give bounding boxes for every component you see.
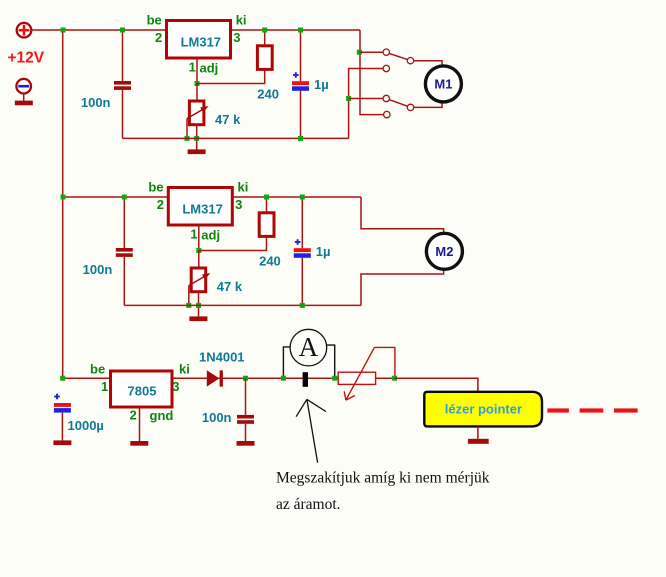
switch S1a blade <box>389 53 407 59</box>
motor M2 <box>426 233 462 269</box>
node ammeter left <box>281 376 286 381</box>
node 100n bottom cap top <box>243 376 248 381</box>
svg-text:240: 240 <box>257 87 279 102</box>
node wiper-rail <box>186 303 191 308</box>
node bus tap <box>61 28 66 33</box>
wire adj lead <box>198 225 200 251</box>
wire rheostat wiper to output <box>374 347 395 378</box>
node 100n top <box>120 28 125 33</box>
ground symbol 1000u <box>53 440 71 445</box>
svg-text:adj: adj <box>201 228 220 243</box>
node wiper-rail <box>185 136 190 141</box>
laser beam dashes <box>547 408 569 412</box>
wire 100n to ground <box>245 424 247 441</box>
svg-text:1000µ: 1000µ <box>68 418 104 433</box>
svg-text:2: 2 <box>155 30 162 45</box>
svg-text:47 k: 47 k <box>215 112 241 127</box>
wire 100n top lead <box>123 197 125 248</box>
wire 1u top lead <box>301 197 303 248</box>
wire laser pointer ground lead <box>477 426 479 438</box>
wire 240 top lead <box>264 30 266 46</box>
wire 240 bottom to adj <box>199 236 267 250</box>
ammeter right lead <box>327 345 335 378</box>
wire switch to motor top <box>414 61 442 65</box>
svg-text:3: 3 <box>233 30 240 45</box>
node bus bottom <box>60 376 65 381</box>
pot wiper arrow <box>189 275 208 286</box>
node 1u top <box>300 195 305 200</box>
svg-text:7805: 7805 <box>128 384 157 399</box>
node 1u-rail <box>298 136 303 141</box>
wire 7805 gnd lead <box>139 407 141 441</box>
node adj <box>196 248 201 253</box>
svg-text:2: 2 <box>157 197 164 212</box>
svg-text:2: 2 <box>130 408 137 423</box>
power terminal +12V <box>17 23 32 38</box>
capacitor 1u polarized <box>293 74 299 76</box>
node rheostat out <box>392 376 397 381</box>
ground symbol <box>188 149 206 154</box>
svg-text:A: A <box>299 332 319 362</box>
ground symbol 100n <box>237 441 255 446</box>
wire 240 bottom to adj <box>197 69 265 83</box>
svg-text:1: 1 <box>189 60 196 75</box>
wire 1000u bottom lead <box>61 413 63 441</box>
switch S1a contact circles <box>383 49 389 55</box>
op-amp U LM317 regulator box <box>167 21 231 59</box>
node 100n top <box>122 195 127 200</box>
svg-text:LM317: LM317 <box>181 35 221 50</box>
node pot-rail <box>196 303 201 308</box>
wire pot top lead <box>198 251 200 269</box>
svg-text:adj: adj <box>200 61 219 76</box>
capacitor 100n <box>114 81 131 85</box>
node ammeter right <box>332 376 337 381</box>
svg-text:47 k: 47 k <box>217 279 243 294</box>
svg-text:be: be <box>90 362 105 377</box>
pot wiper arrow <box>187 108 206 119</box>
capacitor 100n bottom <box>237 415 254 419</box>
wire 240 top lead <box>266 197 268 213</box>
wire pot wiper drop <box>188 286 190 306</box>
svg-text:1: 1 <box>190 227 197 242</box>
wire ground rail <box>123 137 349 139</box>
rheostat wiper arrow <box>346 347 375 400</box>
wire minus terminal stem <box>23 94 25 101</box>
wire pot bottom to ground <box>196 125 198 150</box>
node 240 top <box>264 195 269 200</box>
node 1u-rail <box>300 303 305 308</box>
svg-text:gnd: gnd <box>150 408 174 423</box>
wire 100n top lead <box>122 30 124 81</box>
wire to laser pointer <box>395 378 478 392</box>
svg-text:+12V: +12V <box>8 50 45 67</box>
svg-text:3: 3 <box>235 197 242 212</box>
wire main rail circuit at y=197 <box>63 196 361 198</box>
wire pot bottom to ground <box>198 292 200 317</box>
resistor 240 <box>259 213 274 237</box>
wire bottom main <box>63 377 478 379</box>
svg-text:LM317: LM317 <box>182 202 222 217</box>
node pot-rail <box>194 136 199 141</box>
wire 1u top lead <box>300 30 302 81</box>
switch S1b blade <box>389 100 407 107</box>
svg-text:100n: 100n <box>81 95 111 110</box>
ground bar of minus terminal <box>15 101 33 106</box>
break bar (interruption point) <box>303 372 308 387</box>
svg-text:1µ: 1µ <box>314 77 329 92</box>
wire pot wiper drop <box>186 119 188 139</box>
capacitor 1u polarized <box>295 241 301 243</box>
regulator U3 7805 box <box>111 371 173 407</box>
wire main rail circuit at y=30 <box>63 29 360 31</box>
switch S1b contact circles <box>383 95 389 101</box>
ammeter A <box>290 329 327 366</box>
wire output to motor M2 top <box>361 197 444 233</box>
wire 100n bottom lead <box>122 90 124 138</box>
svg-text:1: 1 <box>101 379 108 394</box>
rheostat body <box>338 372 375 384</box>
resistor 240 <box>257 46 272 70</box>
wire switch to motor bottom <box>414 103 442 108</box>
svg-text:ki: ki <box>238 180 249 195</box>
wire stub to switch contact 1 <box>359 51 383 53</box>
svg-text:ki: ki <box>236 13 247 28</box>
capacitor 1000u plus <box>54 396 60 398</box>
svg-text:3: 3 <box>172 379 179 394</box>
wire 100n lead <box>245 378 247 415</box>
svg-text:1µ: 1µ <box>316 244 331 259</box>
wire +12V to bus <box>31 29 63 31</box>
op-amp U LM317 regulator box <box>168 188 232 226</box>
svg-text:100n: 100n <box>83 262 113 277</box>
svg-text:be: be <box>148 180 163 195</box>
wire 100n bottom lead <box>123 257 125 306</box>
diode D1 1N4001 <box>207 370 220 386</box>
node bus tap <box>61 195 66 200</box>
svg-text:1N4001: 1N4001 <box>199 350 245 365</box>
capacitor 100n <box>116 248 133 252</box>
potentiometer 47k <box>191 268 206 292</box>
svg-text:100n: 100n <box>202 410 232 425</box>
annotation arrow <box>307 399 318 462</box>
wire 1u bottom lead <box>301 258 303 306</box>
wire stub to switch contact 5 <box>349 98 384 100</box>
ground symbol <box>189 316 207 321</box>
node adj <box>195 81 200 86</box>
power terminal 0V (minus) <box>16 79 31 94</box>
wire pot top lead <box>196 84 198 102</box>
node switch feed <box>357 50 362 55</box>
svg-text:M2: M2 <box>435 244 453 259</box>
wire 1u bottom lead <box>300 91 302 139</box>
ground symbol 7805 <box>130 441 148 446</box>
svg-text:M1: M1 <box>434 77 452 92</box>
ground symbol laser <box>468 439 489 444</box>
svg-text:az áramot.: az áramot. <box>276 496 341 513</box>
node return tap <box>346 96 351 101</box>
svg-text:240: 240 <box>259 254 281 269</box>
wire adj lead <box>196 58 198 84</box>
svg-text:be: be <box>147 13 162 28</box>
motor M1 <box>425 66 461 102</box>
wire ground rail <box>124 304 361 306</box>
svg-text:Megszakítjuk amíg ki nem mérjü: Megszakítjuk amíg ki nem mérjük <box>276 470 490 487</box>
wire left vertical bus <box>62 30 64 378</box>
wire output drop to switch <box>360 30 384 115</box>
wire motor M2 bottom return <box>361 269 444 305</box>
node 240 top <box>262 28 267 33</box>
wire return line vertical <box>349 69 384 139</box>
svg-text:ki: ki <box>179 362 190 377</box>
svg-text:lézer pointer: lézer pointer <box>445 402 522 417</box>
capacitor 1000u <box>54 403 71 407</box>
ammeter left lead <box>283 347 290 378</box>
laser pointer box <box>424 392 542 427</box>
node 1u top <box>298 28 303 33</box>
potentiometer 47k <box>189 101 204 125</box>
